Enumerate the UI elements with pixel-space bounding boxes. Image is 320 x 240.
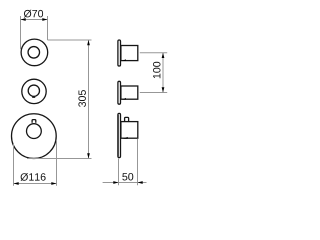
- arrow d70 right: [42, 18, 47, 21]
- side plate top: [118, 40, 121, 66]
- dim line 305: [88, 40, 90, 159]
- side plate bottom: [118, 113, 121, 157]
- ext line d116 right: [56, 140, 58, 186]
- side knob bottom: [121, 122, 138, 139]
- label d116: [21, 173, 46, 181]
- ext line d116 left: [13, 143, 15, 186]
- side knob top: [121, 46, 138, 61]
- dim line 100: [162, 53, 164, 93]
- label 305: [78, 90, 86, 107]
- ext line d70 left: [20, 16, 22, 49]
- label 50: [122, 173, 133, 181]
- arrow d70 left: [21, 18, 26, 21]
- handle middle outer circle: [22, 79, 46, 103]
- dim line d70: [21, 19, 48, 21]
- arrow 50 right: [138, 181, 143, 184]
- side view: [118, 40, 138, 158]
- ext line 305 top: [48, 39, 92, 41]
- dimension lines: [14, 16, 168, 186]
- dim line 50: [103, 182, 147, 184]
- thermostat bottom inner circle: [27, 124, 42, 139]
- ext line 50 right: [137, 139, 139, 186]
- thermostat button notch side: [125, 117, 129, 121]
- dim line d116: [14, 183, 57, 185]
- arrow 100 up: [162, 53, 165, 58]
- knob detail marks: [122, 59, 128, 138]
- arrow d116 right: [51, 182, 56, 185]
- handle top outer circle: [21, 39, 48, 66]
- side plate middle: [118, 81, 121, 104]
- thermostat bottom outer circle: [11, 114, 56, 159]
- ext line 50 left: [118, 159, 120, 186]
- arrow 305 up: [87, 40, 90, 45]
- side knob middle: [121, 86, 138, 99]
- arrow 50 left: [113, 181, 118, 184]
- ext line d70 right: [47, 16, 49, 40]
- thermostat button notch front: [32, 120, 36, 123]
- label d70: [24, 10, 43, 18]
- handle middle inner circle: [28, 85, 39, 96]
- ext line 305 bottom: [27, 158, 92, 160]
- arrowheads: [14, 18, 165, 185]
- mark bottom knob: [123, 137, 128, 139]
- ext line 100 top: [140, 52, 167, 54]
- mark top knob: [122, 59, 126, 61]
- label 100: [153, 62, 161, 79]
- middle knob indicator tick: [32, 96, 35, 98]
- arrow 100 down: [162, 87, 165, 92]
- ext line 100 bottom: [140, 92, 167, 94]
- mark middle knob: [122, 98, 126, 100]
- arrow d116 left: [14, 182, 19, 185]
- arrow 305 down: [87, 153, 90, 158]
- handle top inner circle: [28, 47, 40, 59]
- side plate bottom thick edge: [117, 115, 119, 157]
